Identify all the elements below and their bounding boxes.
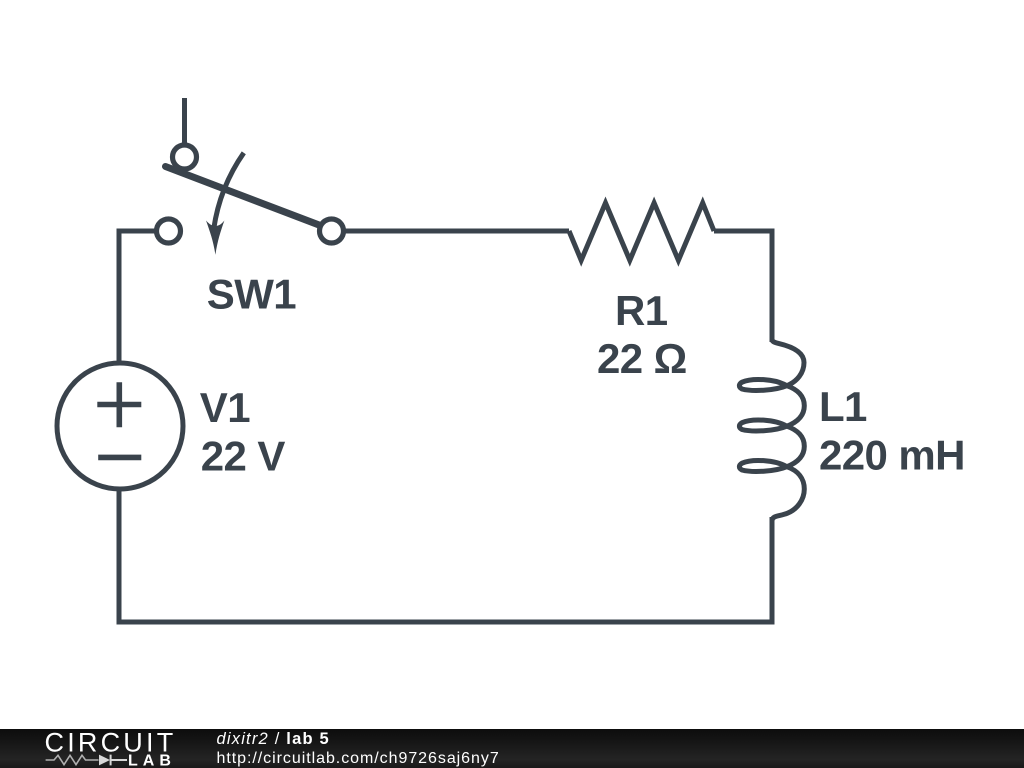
switch SW1 action arrow arc bbox=[214, 153, 244, 229]
voltage source V1 circle bbox=[57, 363, 183, 489]
svg-text:22 V: 22 V bbox=[201, 432, 286, 479]
logo doodle diode cathode bar and wire bbox=[111, 755, 127, 766]
svg-text:L1: L1 bbox=[819, 383, 867, 430]
wire top-right corner to right rail upper bbox=[714, 231, 772, 342]
voltage source V1 bbox=[57, 363, 183, 489]
wire from switch right terminal to resistor bbox=[343, 229, 570, 234]
wire right rail lower, bottom wire, left rail lower bbox=[119, 489, 772, 622]
switch SW1 blade bbox=[166, 167, 325, 228]
svg-text:220 mH: 220 mH bbox=[819, 431, 965, 478]
svg-text:22 Ω: 22 Ω bbox=[597, 335, 687, 382]
wire top-left corner to left rail upper bbox=[119, 231, 157, 363]
switch SW1 top terminal bbox=[173, 145, 197, 169]
switch SW1 top stub wire bbox=[182, 98, 187, 146]
svg-text:V1: V1 bbox=[200, 384, 250, 431]
logo doodle wire with resistor bbox=[46, 755, 99, 764]
resistor R1 bbox=[569, 203, 714, 260]
switch SW1 bbox=[157, 98, 344, 255]
CircuitLab logo bbox=[0, 729, 200, 768]
inductor L1 bbox=[739, 339, 804, 521]
logo doodle diode bbox=[99, 755, 110, 766]
svg-text:SW1: SW1 bbox=[207, 270, 296, 317]
switch SW1 right terminal bbox=[320, 219, 344, 243]
voltage source V1 minus sign bbox=[98, 455, 141, 461]
voltage source V1 plus sign bbox=[97, 382, 141, 427]
svg-text:R1: R1 bbox=[615, 287, 668, 334]
switch SW1 arrowhead bbox=[206, 221, 224, 255]
footer bar bbox=[0, 729, 1024, 768]
svg-text:LAB: LAB bbox=[128, 753, 176, 768]
footer credit text bbox=[217, 729, 500, 768]
switch SW1 left terminal bbox=[157, 219, 181, 243]
